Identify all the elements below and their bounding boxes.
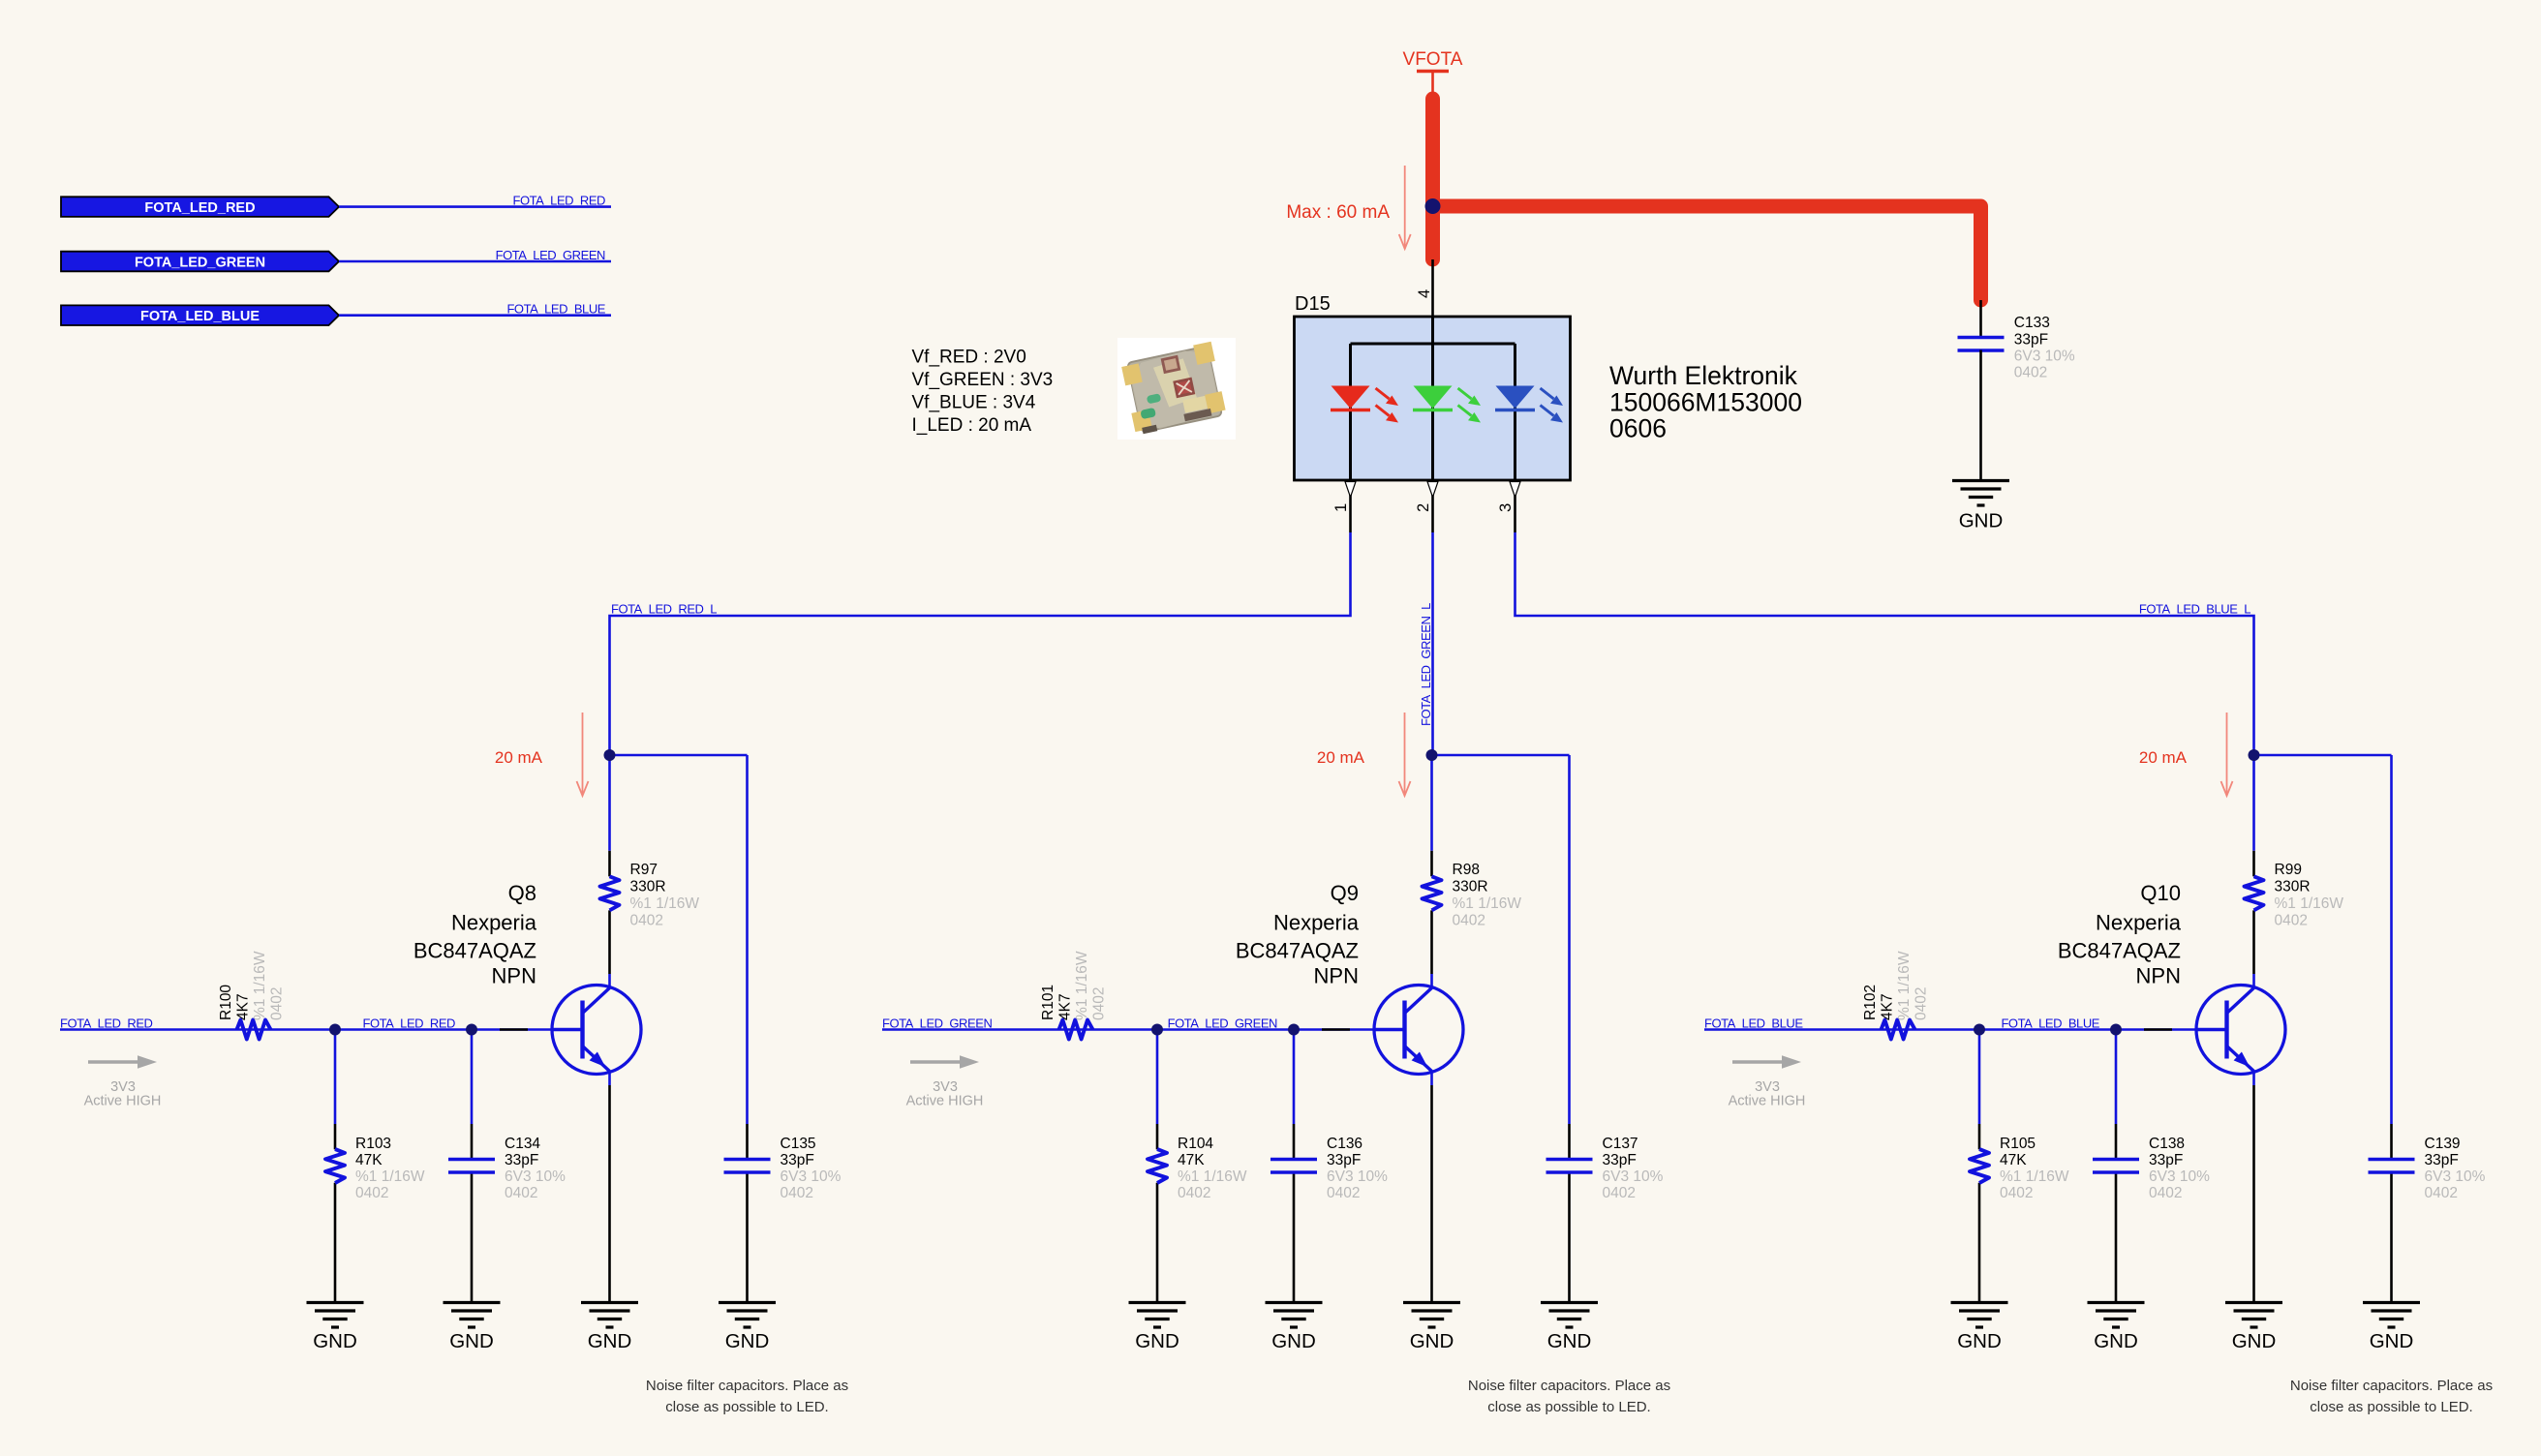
svg-text:6V3 10%: 6V3 10%	[2014, 349, 2075, 365]
svg-text:R100: R100	[218, 985, 234, 1020]
junction dots FOTA_LED_BLUE net	[1974, 749, 2260, 1036]
wire collector stub Q9	[1430, 974, 1433, 988]
capacitor C135	[724, 1160, 771, 1173]
thick red bus VFOTA vertical	[1425, 99, 1440, 259]
wire C133 bottom	[1979, 350, 1982, 481]
junction dots FOTA_LED_RED net	[329, 749, 616, 1036]
pin lead emitter Q8 to ground	[608, 1085, 611, 1303]
pin leads R103	[334, 1124, 337, 1149]
svg-text:GND: GND	[588, 1330, 632, 1352]
input direction arrow	[910, 1055, 979, 1069]
svg-text:BC847AQAZ: BC847AQAZ	[2058, 939, 2181, 963]
transistor Q10	[2196, 986, 2285, 1075]
wire branch to C137	[1432, 754, 1570, 757]
svg-text:Nexperia: Nexperia	[2096, 911, 2182, 935]
svg-text:33pF: 33pF	[2014, 332, 2048, 349]
wire branch to C139	[2254, 754, 2392, 757]
svg-text:GND: GND	[1547, 1330, 1592, 1352]
thick red bus horizontal to C133	[1433, 206, 1981, 300]
ground under C134	[444, 1303, 501, 1328]
transistor Q9	[1374, 986, 1463, 1075]
svg-text:6V3 10%: 6V3 10%	[2149, 1168, 2210, 1185]
svg-text:Active HIGH: Active HIGH	[1729, 1094, 1806, 1109]
LED product photo	[1117, 338, 1236, 440]
svg-text:%1 1/16W: %1 1/16W	[2000, 1168, 2069, 1185]
svg-text:47K: 47K	[1178, 1152, 1205, 1168]
svg-text:33pF: 33pF	[505, 1152, 538, 1168]
resistor R99	[2245, 876, 2264, 910]
pin leads C136	[1293, 1124, 1296, 1160]
svg-text:GND: GND	[1410, 1330, 1454, 1352]
svg-text:R105: R105	[2000, 1136, 2036, 1152]
svg-text:R103: R103	[355, 1136, 391, 1152]
current arrow 20 mA	[577, 713, 589, 796]
wire collector node to R97	[608, 755, 611, 851]
svg-text:33pF: 33pF	[1603, 1152, 1637, 1168]
svg-text:FOTA_LED_GREEN: FOTA_LED_GREEN	[1168, 1016, 1277, 1030]
pin lead emitter Q9 to ground	[1430, 1085, 1433, 1303]
svg-text:FOTA_LED_RED: FOTA_LED_RED	[363, 1016, 456, 1030]
resistor R102	[1882, 1020, 1915, 1040]
svg-text:FOTA_LED_GREEN: FOTA_LED_GREEN	[496, 248, 605, 262]
resistor R97	[600, 876, 620, 910]
ground under Q10 emitter	[2225, 1303, 2282, 1328]
svg-text:D15: D15	[1295, 293, 1331, 315]
svg-text:0402: 0402	[269, 987, 286, 1020]
svg-text:Vf_RED : 2V0: Vf_RED : 2V0	[912, 348, 1026, 368]
wire collector stub Q8	[608, 974, 611, 988]
svg-text:%1 1/16W: %1 1/16W	[1453, 895, 1522, 912]
wire stub to C138	[2115, 1030, 2118, 1125]
svg-text:BC847AQAZ: BC847AQAZ	[413, 939, 536, 963]
svg-text:%1 1/16W: %1 1/16W	[355, 1168, 425, 1185]
wire stub FOTA_LED_RED	[339, 205, 611, 208]
svg-text:6V3 10%: 6V3 10%	[781, 1168, 842, 1185]
pin lead emitter Q10 to ground	[2252, 1085, 2255, 1303]
svg-text:Wurth Elektronik: Wurth Elektronik	[1609, 361, 1798, 390]
ground under R103	[307, 1303, 364, 1328]
svg-text:R101: R101	[1040, 985, 1056, 1020]
wire branch to C135	[610, 754, 748, 757]
svg-text:0402: 0402	[2149, 1185, 2182, 1201]
ground under R105	[1951, 1303, 2008, 1328]
junction on VFOTA bus	[1425, 198, 1441, 214]
pin leads R98	[1430, 851, 1433, 877]
svg-text:FOTA_LED_RED: FOTA_LED_RED	[144, 200, 255, 216]
svg-text:33pF: 33pF	[1327, 1152, 1361, 1168]
svg-text:C136: C136	[1327, 1136, 1362, 1152]
svg-text:4K7: 4K7	[235, 993, 252, 1020]
pin lead base Q10	[2144, 1028, 2172, 1031]
wire emitter stub Q8	[608, 1072, 611, 1086]
ground under C135	[719, 1303, 776, 1328]
svg-text:Q10: Q10	[2140, 881, 2181, 905]
svg-text:FOTA_LED_RED: FOTA_LED_RED	[513, 193, 606, 207]
port flag FOTA_LED_GREEN	[61, 252, 339, 272]
svg-text:close as possible to LED.: close as possible to LED.	[2310, 1399, 2472, 1415]
svg-text:33pF: 33pF	[781, 1152, 814, 1168]
svg-text:%1 1/16W: %1 1/16W	[630, 895, 700, 912]
power port VFOTA	[1403, 49, 1463, 93]
svg-text:Q9: Q9	[1331, 881, 1359, 905]
svg-text:Active HIGH: Active HIGH	[84, 1094, 162, 1109]
svg-text:NPN: NPN	[1314, 964, 1359, 988]
svg-text:2: 2	[1415, 503, 1432, 512]
svg-text:GND: GND	[1135, 1330, 1179, 1352]
resistor R101	[1059, 1020, 1093, 1040]
svg-text:3: 3	[1497, 503, 1515, 512]
svg-text:1: 1	[1332, 503, 1350, 512]
svg-text:GND: GND	[1959, 510, 2004, 532]
svg-text:GND: GND	[2370, 1330, 2414, 1352]
wire net FOTA_LED_GREEN input row	[882, 1028, 1405, 1031]
svg-text:FOTA_LED_BLUE: FOTA_LED_BLUE	[1704, 1016, 1803, 1030]
svg-text:Active HIGH: Active HIGH	[906, 1094, 984, 1109]
pin leads R105	[1978, 1124, 1981, 1149]
wire pin4	[1431, 259, 1434, 317]
wire collector node to R99	[2252, 755, 2255, 851]
svg-text:0402: 0402	[1453, 913, 1485, 929]
svg-text:0402: 0402	[2275, 913, 2308, 929]
svg-text:C134: C134	[505, 1136, 540, 1152]
svg-text:FOTA_LED_RED: FOTA_LED_RED	[60, 1016, 153, 1030]
wire stub to R104	[1156, 1030, 1159, 1125]
svg-text:FOTA_LED_BLUE: FOTA_LED_BLUE	[506, 302, 605, 317]
wire net FOTA_LED_BLUE input row	[1704, 1028, 2227, 1031]
svg-text:%1 1/16W: %1 1/16W	[2275, 895, 2344, 912]
svg-text:FOTA_LED_GREEN_L: FOTA_LED_GREEN_L	[1419, 603, 1433, 726]
svg-text:0402: 0402	[630, 913, 663, 929]
pin lead base Q8	[500, 1028, 528, 1031]
svg-text:4: 4	[1416, 289, 1433, 298]
input direction arrow	[1732, 1055, 1801, 1069]
port flag FOTA_LED_BLUE	[61, 305, 339, 325]
wire stub FOTA_LED_BLUE	[339, 314, 611, 317]
svg-text:%1 1/16W: %1 1/16W	[1896, 951, 1913, 1020]
resistor R104	[1148, 1149, 1167, 1183]
svg-text:BC847AQAZ: BC847AQAZ	[1236, 939, 1359, 963]
wire C133 top	[1979, 300, 1982, 337]
ground under C138	[2088, 1303, 2145, 1328]
svg-text:0402: 0402	[2425, 1185, 2458, 1201]
ground under C137	[1541, 1303, 1598, 1328]
svg-text:33pF: 33pF	[2149, 1152, 2183, 1168]
pin 1 stub	[1349, 480, 1352, 532]
svg-text:0402: 0402	[505, 1185, 537, 1201]
wire stub to C134	[471, 1030, 474, 1125]
wire FOTA_LED_RED_L	[610, 532, 1351, 755]
svg-text:GND: GND	[2232, 1330, 2277, 1352]
ground C133	[1952, 481, 2009, 506]
svg-text:NPN: NPN	[2136, 964, 2181, 988]
wire collector stub Q10	[2252, 974, 2255, 988]
svg-text:330R: 330R	[630, 879, 666, 895]
wire FOTA_LED_GREEN_L	[1431, 532, 1434, 755]
current arrow 60 mA	[1399, 166, 1411, 249]
capacitor C136	[1270, 1160, 1317, 1173]
junction dots FOTA_LED_GREEN net	[1151, 749, 1438, 1036]
svg-text:GND: GND	[725, 1330, 770, 1352]
svg-text:C137: C137	[1603, 1136, 1638, 1152]
pin leads R97	[608, 851, 611, 877]
pin leads R99	[2252, 851, 2255, 877]
ground under Q8 emitter	[581, 1303, 638, 1328]
svg-text:GND: GND	[313, 1330, 357, 1352]
capacitor C138	[2093, 1160, 2139, 1173]
pin leads C139	[2390, 1124, 2393, 1160]
resistor R98	[1423, 876, 1442, 910]
ground under R104	[1129, 1303, 1186, 1328]
svg-text:0402: 0402	[1327, 1185, 1360, 1201]
svg-text:C139: C139	[2425, 1136, 2461, 1152]
capacitor C134	[448, 1160, 495, 1173]
LED D15 body	[1295, 317, 1571, 480]
capacitor C137	[1546, 1160, 1593, 1173]
svg-text:C135: C135	[781, 1136, 816, 1152]
svg-text:GND: GND	[1957, 1330, 2002, 1352]
wire net FOTA_LED_RED input row	[60, 1028, 583, 1031]
internal bus	[1351, 317, 1515, 480]
wire stub to R103	[334, 1030, 337, 1125]
LED element blue	[1495, 386, 1563, 423]
resistor R103	[325, 1149, 345, 1183]
current arrow 20 mA	[2221, 713, 2233, 796]
svg-text:6V3 10%: 6V3 10%	[505, 1168, 566, 1185]
svg-text:close as possible to LED.: close as possible to LED.	[1487, 1399, 1650, 1415]
svg-text:4K7: 4K7	[1057, 993, 1074, 1020]
svg-text:R98: R98	[1453, 862, 1480, 878]
pin leads C137	[1568, 1124, 1571, 1160]
svg-text:330R: 330R	[1453, 879, 1488, 895]
svg-text:FOTA_LED_GREEN: FOTA_LED_GREEN	[135, 255, 265, 270]
wire emitter stub Q9	[1430, 1072, 1433, 1086]
svg-text:NPN: NPN	[492, 964, 536, 988]
current arrow 20 mA	[1399, 713, 1411, 796]
wire stub FOTA_LED_GREEN	[339, 260, 611, 263]
svg-text:20 mA: 20 mA	[495, 748, 543, 767]
svg-text:FOTA_LED_BLUE: FOTA_LED_BLUE	[2001, 1016, 2099, 1030]
transistor Q8	[552, 986, 641, 1075]
svg-text:0402: 0402	[2014, 365, 2047, 381]
svg-text:47K: 47K	[355, 1152, 383, 1168]
svg-text:C133: C133	[2014, 315, 2050, 331]
svg-text:0402: 0402	[1091, 987, 1108, 1020]
wire stub to C136	[1293, 1030, 1296, 1125]
svg-text:Q8: Q8	[508, 881, 536, 905]
input direction arrow	[88, 1055, 157, 1069]
svg-text:FOTA_LED_BLUE_L: FOTA_LED_BLUE_L	[2139, 601, 2250, 616]
LED element red	[1331, 386, 1398, 423]
svg-text:GND: GND	[2094, 1330, 2138, 1352]
svg-text:Noise filter capacitors. Place: Noise filter capacitors. Place as	[1468, 1378, 1670, 1394]
svg-text:%1 1/16W: %1 1/16W	[1074, 951, 1090, 1020]
svg-text:Max : 60 mA: Max : 60 mA	[1286, 202, 1390, 223]
svg-text:close as possible to LED.: close as possible to LED.	[665, 1399, 828, 1415]
svg-text:4K7: 4K7	[1880, 993, 1896, 1020]
svg-text:%1 1/16W: %1 1/16W	[252, 951, 268, 1020]
svg-text:0402: 0402	[1913, 987, 1930, 1020]
capacitor C133	[1958, 338, 2005, 351]
svg-text:0402: 0402	[781, 1185, 813, 1201]
wire FOTA_LED_BLUE_L	[1515, 532, 2254, 755]
svg-text:33pF: 33pF	[2425, 1152, 2459, 1168]
pin 2 stub	[1431, 480, 1434, 532]
pin leads C135	[746, 1124, 749, 1160]
svg-text:20 mA: 20 mA	[1317, 748, 1365, 767]
svg-text:Noise filter capacitors. Place: Noise filter capacitors. Place as	[646, 1378, 848, 1394]
pin leads C138	[2115, 1124, 2118, 1160]
svg-text:150066M153000: 150066M153000	[1609, 388, 1802, 417]
resistor R105	[1970, 1149, 1989, 1183]
pin leads C134	[471, 1124, 474, 1160]
svg-text:0402: 0402	[2000, 1185, 2033, 1201]
ground under C136	[1266, 1303, 1323, 1328]
port flag FOTA_LED_RED	[61, 197, 339, 217]
svg-text:FOTA_LED_GREEN: FOTA_LED_GREEN	[882, 1016, 992, 1030]
svg-text:Vf_BLUE : 3V4: Vf_BLUE : 3V4	[912, 393, 1036, 413]
svg-text:6V3 10%: 6V3 10%	[1603, 1168, 1664, 1185]
wire emitter stub Q10	[2252, 1072, 2255, 1086]
wire collector node to R98	[1430, 755, 1433, 851]
svg-text:Nexperia: Nexperia	[1273, 911, 1360, 935]
svg-text:R97: R97	[630, 862, 658, 878]
ground under Q9 emitter	[1403, 1303, 1460, 1328]
svg-text:C138: C138	[2149, 1136, 2185, 1152]
pin 3 stub	[1514, 480, 1516, 532]
pin leads R104	[1156, 1124, 1159, 1149]
svg-text:0402: 0402	[355, 1185, 388, 1201]
svg-text:Vf_GREEN : 3V3: Vf_GREEN : 3V3	[912, 370, 1054, 390]
resistor R100	[237, 1020, 271, 1040]
svg-text:GND: GND	[449, 1330, 494, 1352]
wire stub to R105	[1978, 1030, 1981, 1125]
svg-text:FOTA_LED_BLUE: FOTA_LED_BLUE	[140, 309, 260, 324]
svg-text:0606: 0606	[1609, 414, 1667, 443]
svg-text:R104: R104	[1178, 1136, 1213, 1152]
LED element green	[1413, 386, 1481, 423]
svg-text:0402: 0402	[1178, 1185, 1210, 1201]
capacitor C139	[2369, 1160, 2415, 1173]
svg-text:6V3 10%: 6V3 10%	[2425, 1168, 2486, 1185]
ground under C139	[2363, 1303, 2420, 1328]
svg-text:Nexperia: Nexperia	[451, 911, 537, 935]
svg-text:R99: R99	[2275, 862, 2302, 878]
svg-text:0402: 0402	[1603, 1185, 1636, 1201]
svg-text:FOTA_LED_RED_L: FOTA_LED_RED_L	[611, 601, 717, 616]
svg-text:330R: 330R	[2275, 879, 2311, 895]
svg-text:%1 1/16W: %1 1/16W	[1178, 1168, 1247, 1185]
svg-text:20 mA: 20 mA	[2139, 748, 2188, 767]
svg-text:6V3 10%: 6V3 10%	[1327, 1168, 1388, 1185]
svg-text:47K: 47K	[2000, 1152, 2027, 1168]
svg-text:VFOTA: VFOTA	[1403, 49, 1463, 70]
pin lead base Q9	[1322, 1028, 1350, 1031]
svg-text:I_LED : 20 mA: I_LED : 20 mA	[912, 415, 1032, 436]
svg-text:GND: GND	[1271, 1330, 1316, 1352]
svg-text:Noise filter capacitors. Place: Noise filter capacitors. Place as	[2290, 1378, 2493, 1394]
svg-text:R102: R102	[1862, 985, 1879, 1020]
